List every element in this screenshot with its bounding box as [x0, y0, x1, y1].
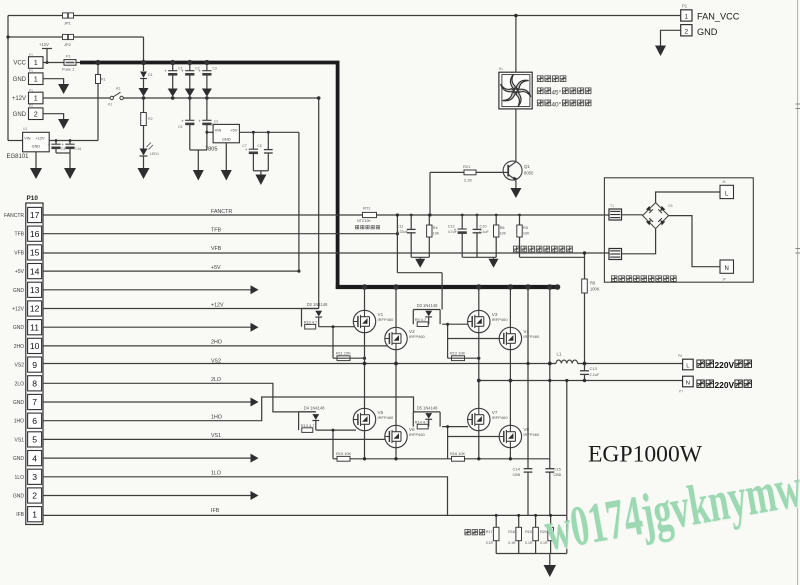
- svg-text:10K: 10K: [433, 231, 440, 235]
- svg-text:C15: C15: [554, 467, 562, 472]
- svg-text:1LO: 1LO: [15, 475, 25, 481]
- svg-text:2LO: 2LO: [15, 381, 25, 387]
- svg-text:C3: C3: [212, 67, 216, 71]
- svg-text:+5V: +5V: [211, 265, 221, 271]
- svg-text:0.1uF: 0.1uF: [480, 230, 490, 234]
- svg-text:R2: R2: [148, 117, 153, 121]
- svg-text:VS1: VS1: [15, 437, 25, 443]
- svg-text:C4: C4: [61, 147, 65, 151]
- svg-text:IFB: IFB: [16, 512, 24, 518]
- svg-text:R18: R18: [508, 530, 515, 534]
- svg-text:3: 3: [32, 472, 37, 482]
- svg-text:Q1: Q1: [524, 164, 530, 169]
- svg-text:R21: R21: [463, 164, 471, 169]
- svg-text:220V: 220V: [715, 360, 735, 370]
- svg-text:C7: C7: [242, 144, 246, 148]
- svg-text:5: 5: [32, 435, 37, 445]
- svg-text:NTC10K: NTC10K: [357, 219, 371, 223]
- svg-text:VS2: VS2: [15, 363, 25, 369]
- svg-text:L1: L1: [557, 352, 562, 357]
- svg-text:G5: G5: [668, 204, 673, 208]
- svg-text:0.1R: 0.1R: [486, 541, 494, 545]
- svg-text:IRFP460: IRFP460: [523, 432, 540, 437]
- svg-text:P1: P1: [29, 53, 33, 57]
- svg-text:4.7uF: 4.7uF: [448, 230, 458, 234]
- svg-text:4: 4: [32, 453, 37, 463]
- svg-text:CBB: CBB: [513, 473, 521, 477]
- svg-text:2: 2: [34, 109, 38, 118]
- svg-text:D1: D1: [148, 73, 153, 77]
- svg-text:VFB: VFB: [14, 250, 24, 256]
- svg-text:LED1: LED1: [150, 152, 159, 156]
- svg-text:1LO: 1LO: [211, 471, 221, 477]
- svg-text:8050: 8050: [524, 171, 534, 176]
- svg-text:N: N: [725, 266, 729, 272]
- svg-text:C10: C10: [480, 225, 487, 229]
- svg-text:C11: C11: [397, 225, 404, 229]
- svg-text:D5 1N4148: D5 1N4148: [417, 405, 438, 410]
- svg-text:2HO: 2HO: [211, 340, 222, 346]
- svg-text:1HO: 1HO: [14, 419, 24, 425]
- svg-text:R1: R1: [101, 78, 106, 82]
- svg-text:IRFP460: IRFP460: [492, 415, 509, 420]
- svg-text:N: N: [686, 381, 690, 387]
- svg-text:C16: C16: [75, 147, 81, 151]
- svg-text:P1: P1: [29, 88, 33, 92]
- svg-text:100K: 100K: [590, 287, 600, 292]
- svg-text:R10 4.7: R10 4.7: [304, 320, 318, 325]
- svg-text:+12V: +12V: [12, 96, 26, 102]
- svg-text:1: 1: [34, 58, 38, 67]
- svg-text:B1: B1: [499, 67, 503, 71]
- svg-text:CBB: CBB: [554, 473, 562, 477]
- svg-text:GND: GND: [13, 456, 25, 462]
- svg-text:2: 2: [685, 28, 689, 35]
- svg-text:40°: 40°: [552, 100, 562, 108]
- svg-text:C5: C5: [178, 125, 182, 129]
- svg-text:FAN_VCC: FAN_VCC: [697, 11, 740, 21]
- svg-text:JP2: JP2: [64, 42, 72, 47]
- svg-text:C13: C13: [590, 366, 598, 371]
- svg-text:11: 11: [30, 322, 39, 332]
- svg-text:2LO: 2LO: [211, 377, 221, 383]
- svg-text:6: 6: [32, 416, 37, 426]
- svg-text:T1: T1: [610, 204, 614, 208]
- svg-text:2: 2: [32, 491, 37, 501]
- svg-text:EGP1000W: EGP1000W: [588, 442, 703, 468]
- svg-text:2.2uF: 2.2uF: [590, 373, 600, 377]
- svg-text:R14 4.7: R14 4.7: [415, 419, 429, 424]
- svg-text:Fuse 1: Fuse 1: [62, 67, 75, 72]
- svg-text:VFB: VFB: [211, 246, 222, 252]
- svg-text:F1: F1: [66, 54, 71, 59]
- svg-text:VS1: VS1: [211, 433, 221, 439]
- svg-text:R5: R5: [523, 226, 528, 230]
- svg-text:GND: GND: [13, 288, 25, 294]
- svg-text:A1: A1: [116, 87, 120, 91]
- svg-text:1: 1: [34, 94, 38, 103]
- svg-text:EG8101: EG8101: [7, 154, 30, 160]
- svg-text:7: 7: [32, 397, 37, 407]
- svg-text:P10: P10: [27, 195, 39, 202]
- svg-text:R4: R4: [433, 226, 438, 230]
- svg-text:IRFP460: IRFP460: [492, 317, 509, 322]
- svg-text:10K: 10K: [523, 231, 530, 235]
- svg-text:GND: GND: [13, 112, 27, 118]
- svg-text:P2: P2: [29, 104, 33, 108]
- svg-text:IRFP460: IRFP460: [378, 317, 395, 322]
- svg-text:10K: 10K: [500, 231, 507, 235]
- svg-text:TFB: TFB: [211, 228, 221, 234]
- svg-text:U1: U1: [23, 127, 27, 131]
- svg-text:R17: R17: [486, 530, 493, 534]
- svg-text:VIN: VIN: [24, 137, 31, 141]
- svg-text:7805: 7805: [205, 147, 217, 153]
- svg-text:VCC: VCC: [13, 61, 26, 67]
- svg-text:8: 8: [32, 379, 37, 389]
- svg-text:13: 13: [30, 285, 40, 295]
- svg-text:+12V: +12V: [39, 42, 49, 47]
- svg-text:15: 15: [30, 248, 40, 258]
- svg-text:2HO: 2HO: [14, 344, 24, 350]
- svg-text:GND: GND: [13, 77, 27, 83]
- svg-text:+5V: +5V: [15, 269, 25, 275]
- svg-text:45°: 45°: [552, 88, 562, 96]
- svg-text:+12V: +12V: [36, 137, 45, 141]
- svg-text:12: 12: [30, 304, 40, 314]
- svg-text:IRFP460: IRFP460: [523, 334, 540, 339]
- svg-text:P6: P6: [678, 354, 682, 358]
- svg-text:IFB: IFB: [211, 508, 220, 514]
- svg-text:IRFP460: IRFP460: [409, 432, 426, 437]
- svg-text:U3: U3: [214, 120, 218, 124]
- svg-text:+12V: +12V: [211, 302, 224, 308]
- svg-text:GND: GND: [697, 27, 718, 37]
- svg-text:0.33uF: 0.33uF: [397, 230, 409, 234]
- svg-text:P1: P1: [682, 4, 688, 9]
- svg-text:JP1: JP1: [64, 21, 72, 26]
- svg-text:D3 1N4148: D3 1N4148: [417, 303, 438, 308]
- svg-text:16: 16: [30, 229, 40, 239]
- svg-text:VIN: VIN: [215, 128, 222, 133]
- svg-text:0.1R: 0.1R: [525, 541, 533, 545]
- svg-text:K1: K1: [108, 103, 112, 107]
- svg-text:R9 4.7: R9 4.7: [415, 317, 426, 322]
- svg-text:R16 10K: R16 10K: [450, 451, 466, 456]
- svg-text:JP: JP: [722, 278, 726, 282]
- svg-text:C14: C14: [513, 467, 521, 472]
- svg-text:R6: R6: [500, 226, 505, 230]
- svg-text:P1: P1: [29, 69, 33, 73]
- svg-text:R8: R8: [590, 281, 596, 286]
- svg-text:GND: GND: [13, 494, 25, 500]
- svg-text:FANCTR: FANCTR: [211, 209, 232, 215]
- svg-text:IRFP460: IRFP460: [409, 334, 426, 339]
- svg-text:D2 1N4148: D2 1N4148: [307, 302, 328, 307]
- svg-text:1: 1: [685, 14, 689, 21]
- svg-text:GND: GND: [13, 325, 25, 331]
- svg-text:FANCTR: FANCTR: [4, 213, 24, 219]
- svg-text:R12 10K: R12 10K: [450, 350, 466, 355]
- svg-text:10: 10: [30, 341, 40, 351]
- svg-text:P7: P7: [679, 390, 683, 394]
- svg-text:GND: GND: [32, 145, 41, 149]
- svg-text:1: 1: [32, 509, 37, 519]
- svg-text:+5V: +5V: [230, 128, 237, 133]
- svg-text:14: 14: [30, 266, 40, 276]
- svg-text:GND: GND: [222, 136, 231, 141]
- svg-text:R15 10K: R15 10K: [336, 451, 352, 456]
- svg-text:17: 17: [30, 210, 40, 220]
- svg-text:1HO: 1HO: [211, 415, 222, 421]
- svg-text:1: 1: [34, 74, 38, 83]
- svg-text:9: 9: [32, 360, 37, 370]
- svg-text:2.2K: 2.2K: [464, 178, 473, 183]
- svg-text:R11 10K: R11 10K: [336, 350, 351, 355]
- svg-text:IRFP460: IRFP460: [378, 415, 395, 420]
- svg-text:RT1: RT1: [363, 206, 371, 211]
- svg-text:+12V: +12V: [12, 307, 24, 313]
- svg-text:C8: C8: [257, 144, 261, 148]
- svg-text:D4 1N4148: D4 1N4148: [304, 405, 325, 410]
- svg-text:0.1R: 0.1R: [508, 541, 516, 545]
- svg-text:GND: GND: [13, 400, 25, 406]
- svg-text:TFB: TFB: [15, 232, 25, 238]
- svg-text:220V: 220V: [715, 380, 735, 390]
- svg-text:R13 4.7: R13 4.7: [301, 423, 315, 428]
- svg-text:C12: C12: [448, 225, 455, 229]
- svg-text:R19: R19: [525, 530, 532, 534]
